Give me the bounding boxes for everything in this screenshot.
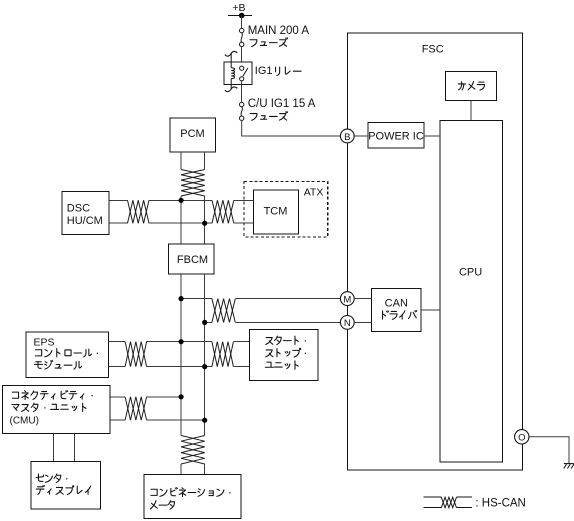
wire CMU twist to bus high <box>147 396 182 398</box>
relay IG1 <box>224 51 252 91</box>
twisted pair start-stop unit <box>212 342 234 367</box>
wire EPS twist to bus low <box>147 366 212 368</box>
wire start-stop CAN high <box>233 341 249 343</box>
svg-text:ATX: ATX <box>304 187 324 199</box>
camera unit <box>446 71 497 100</box>
fuse C/U IG1 15 A <box>240 102 244 120</box>
svg-text:POWER IC: POWER IC <box>368 130 424 142</box>
svg-text:TCM: TCM <box>264 205 288 217</box>
wire CMU twist to bus low <box>147 419 205 421</box>
wire EPS twist to bus high <box>147 341 212 343</box>
junction EPS low <box>202 364 207 369</box>
wire start-stop CAN low <box>233 366 249 368</box>
junction bus N <box>202 320 207 325</box>
svg-text:C/U IG1 15 A: C/U IG1 15 A <box>248 98 316 110</box>
module center display <box>31 462 101 510</box>
module start-stop unit <box>249 329 318 380</box>
twisted pair above meter <box>181 436 205 465</box>
wire DSC CAN low <box>109 222 128 224</box>
svg-text:EPS: EPS <box>34 336 55 348</box>
wire +B to MAIN fuse <box>241 16 243 29</box>
wire bus pair to meter <box>181 464 205 474</box>
wire POWER IC to CPU <box>424 135 440 137</box>
svg-text:FSC: FSC <box>422 43 444 55</box>
twisted pair CAN driver <box>212 299 235 323</box>
wire connector M to CAN driver <box>354 298 371 300</box>
svg-text:DSC: DSC <box>67 203 90 215</box>
ECU FSC box <box>347 33 522 470</box>
twisted pair TCM <box>212 200 234 223</box>
svg-text:B: B <box>344 132 350 143</box>
twisted pair DSC <box>128 200 150 223</box>
legend label HS-CAN <box>475 497 525 509</box>
twisted pair EPS <box>125 342 147 367</box>
module EPS control module <box>26 332 109 377</box>
wire bus pair to FBCM <box>181 196 205 244</box>
ic CPU <box>440 121 503 463</box>
wire DSC twist to bus low <box>149 222 212 224</box>
connector M <box>340 292 354 306</box>
label MAIN 200 A fuse <box>248 25 310 46</box>
wire connector O to ground <box>529 437 569 464</box>
battery positive +B <box>228 2 252 18</box>
wire CMU to center display left <box>52 434 54 462</box>
wire DSC twist to bus high <box>149 199 212 201</box>
svg-text:MAIN 200 A: MAIN 200 A <box>248 25 310 37</box>
wire CMU CAN low <box>110 419 125 421</box>
svg-text:CAN: CAN <box>385 298 408 310</box>
wire DSC CAN high <box>109 199 128 201</box>
wire C/U fuse to connector B <box>242 120 341 136</box>
junction EPS high <box>179 339 184 344</box>
wire bus pair PCM down <box>181 152 205 170</box>
wire MAIN fuse to IG1 relay <box>241 47 243 67</box>
connector O <box>515 430 529 444</box>
twisted pair below PCM <box>181 170 205 197</box>
wire bus to M twist high <box>181 298 212 300</box>
wire CAN driver to CPU <box>421 309 440 311</box>
wire TCM CAN high <box>234 199 254 201</box>
wire CMU CAN high <box>110 396 125 398</box>
module FBCM <box>169 244 214 274</box>
svg-text:O: O <box>518 433 525 444</box>
label IG1 relay <box>255 65 301 77</box>
svg-text:: HS-CAN: : HS-CAN <box>475 497 525 509</box>
fuse MAIN 200 A <box>240 28 244 46</box>
svg-text:FBCM: FBCM <box>177 254 208 266</box>
svg-text:CPU: CPU <box>459 267 482 279</box>
module DSC HU/CM <box>62 191 109 234</box>
wire twist to connector N <box>235 321 340 323</box>
legend twisted pair symbol <box>423 497 472 508</box>
module combination meter <box>144 474 241 518</box>
wire connector N to CAN driver <box>354 321 371 323</box>
svg-text:N: N <box>344 318 351 329</box>
wire EPS CAN low <box>109 366 126 368</box>
junction CMU high <box>179 394 184 399</box>
svg-text:IG1: IG1 <box>255 65 273 77</box>
wire EPS CAN high <box>109 341 126 343</box>
svg-text:+B: +B <box>232 2 245 14</box>
wire camera to CPU <box>470 101 472 121</box>
wire bus to N twist low <box>205 321 212 323</box>
svg-text:(CMU): (CMU) <box>10 416 39 427</box>
twisted pair CMU <box>125 397 147 420</box>
junction DSC high <box>179 198 184 203</box>
junction bus M <box>179 296 184 301</box>
wire connector B to POWER IC <box>354 135 368 137</box>
ic POWER IC <box>368 122 424 148</box>
wire TCM CAN low <box>234 222 254 224</box>
ic CAN driver <box>371 289 421 332</box>
transmission unit ATX dashed box <box>244 182 328 237</box>
wire CMU to center display right <box>74 434 76 462</box>
wire IG1 relay to C/U fuse <box>241 81 243 102</box>
svg-text:M: M <box>343 294 351 305</box>
junction CMU low <box>202 418 207 423</box>
connector B <box>340 129 354 143</box>
junction DSC low <box>202 221 207 226</box>
module TCM <box>254 190 299 234</box>
wire bus pair FBCM down <box>181 274 205 435</box>
ground <box>564 464 574 469</box>
wire twist to connector M <box>235 298 340 300</box>
module CMU connectivity master unit <box>2 386 110 434</box>
svg-text:HU/CM: HU/CM <box>67 215 103 227</box>
svg-text:PCM: PCM <box>180 128 204 140</box>
connector N <box>340 316 354 330</box>
module PCM <box>170 118 215 152</box>
label C/U IG1 15 A fuse <box>248 98 316 120</box>
